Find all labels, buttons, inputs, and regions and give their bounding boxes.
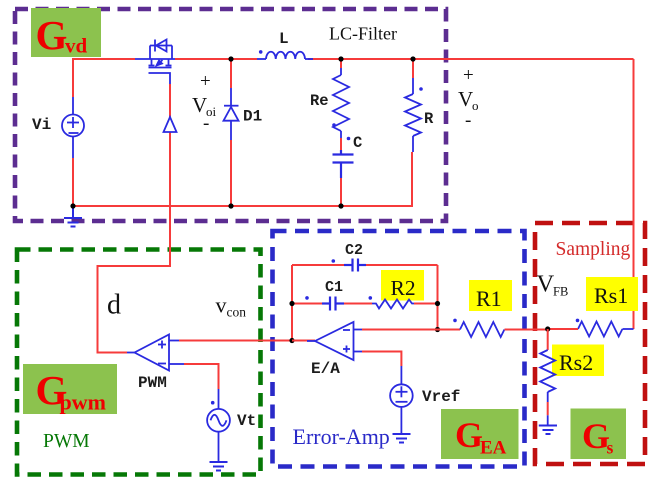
junction node Re top bbox=[338, 56, 343, 61]
svg-text:-: - bbox=[203, 113, 209, 134]
op-amp E/A bbox=[307, 322, 362, 360]
source Vref bbox=[390, 366, 413, 433]
junction node Vi bottom bbox=[70, 203, 75, 208]
op-amp PWM comparator bbox=[127, 335, 184, 371]
svg-text:o: o bbox=[472, 98, 479, 113]
svg-text:C: C bbox=[353, 134, 362, 152]
svg-text:PWM: PWM bbox=[138, 374, 167, 392]
label GEA green box bbox=[441, 409, 519, 459]
label Rs2 yellow bbox=[552, 345, 604, 377]
wire feedback right vertical bbox=[437, 265, 439, 330]
svg-text:EA: EA bbox=[480, 438, 507, 459]
source Vi bbox=[62, 97, 84, 158]
resistor R bbox=[405, 78, 421, 152]
junction node R2 right bbox=[435, 301, 440, 306]
svg-text:Re: Re bbox=[310, 92, 329, 110]
resistor Rs2 bbox=[547, 329, 549, 350]
wire Vo feedback right vertical bbox=[633, 59, 635, 329]
svg-text:d: d bbox=[107, 290, 121, 321]
svg-text:FB: FB bbox=[553, 285, 568, 299]
svg-text:G: G bbox=[455, 415, 483, 455]
wire gate drive (d) bbox=[98, 84, 171, 353]
label Gpwm green box bbox=[23, 364, 117, 415]
label +Voi- bbox=[192, 71, 217, 134]
svg-text:v: v bbox=[216, 293, 227, 318]
wire switch to D1 node and to L bbox=[175, 58, 257, 60]
ground (Vt) bbox=[210, 462, 228, 471]
junction node C1 left bbox=[289, 301, 294, 306]
label Gvd green box bbox=[31, 8, 101, 58]
junction node D1 bottom bbox=[228, 203, 233, 208]
svg-text:V: V bbox=[537, 271, 555, 298]
svg-text:+: + bbox=[200, 71, 211, 92]
svg-text:D1: D1 bbox=[243, 108, 262, 126]
wire Vi lower lead bbox=[72, 158, 74, 206]
wire PWM minus to Vt bbox=[184, 364, 219, 389]
svg-text:Rs1: Rs1 bbox=[594, 283, 628, 308]
svg-text:con: con bbox=[227, 305, 247, 320]
svg-text:V: V bbox=[458, 87, 473, 111]
junction node E/A minus input bbox=[435, 327, 440, 332]
svg-text:Error-Amp: Error-Amp bbox=[293, 424, 390, 449]
junction node R top bbox=[410, 56, 415, 61]
svg-text:R2: R2 bbox=[391, 276, 416, 300]
junction node C bottom bbox=[338, 203, 343, 208]
resistor R1 bbox=[438, 329, 461, 331]
svg-text:Vi: Vi bbox=[32, 116, 51, 134]
wire top rail bbox=[73, 59, 135, 97]
capacitor C2 bbox=[344, 259, 366, 272]
wire E/A output bbox=[292, 340, 307, 342]
box Gvd (purple dashed) bbox=[15, 9, 446, 221]
wire C2 branch bbox=[292, 264, 344, 266]
wire vcon (E/A output to PWM +) bbox=[179, 340, 315, 342]
svg-text:G: G bbox=[36, 12, 68, 58]
resistor Re bbox=[333, 68, 349, 138]
source Vt (triangle/sine gen) bbox=[207, 389, 230, 461]
ground (Vref) bbox=[393, 434, 411, 443]
resistor Rs1 bbox=[578, 322, 622, 337]
svg-text:Sampling: Sampling bbox=[556, 239, 631, 260]
label Gs green box bbox=[571, 409, 627, 460]
svg-text:+: + bbox=[463, 65, 474, 86]
ground (Rs2) bbox=[539, 426, 557, 435]
svg-text:R: R bbox=[424, 110, 434, 128]
svg-text:E/A: E/A bbox=[311, 360, 340, 378]
pin dot L bbox=[259, 50, 263, 54]
box Error-Amp (blue dashed) bbox=[273, 231, 525, 467]
svg-text:Rs2: Rs2 bbox=[559, 350, 593, 375]
diode D1 bbox=[224, 88, 239, 140]
svg-text:C2: C2 bbox=[345, 242, 363, 259]
wire E/A plus to Vref bbox=[362, 352, 401, 367]
svg-text:L: L bbox=[279, 30, 289, 48]
svg-text:LC-Filter: LC-Filter bbox=[329, 24, 397, 44]
resistor R2 bbox=[372, 300, 414, 309]
capacitor C1 bbox=[322, 297, 344, 311]
label R1 yellow bbox=[469, 280, 512, 311]
svg-text:Vref: Vref bbox=[422, 388, 460, 406]
wire E/A minus input bbox=[362, 329, 438, 331]
box Sampling Gs (red dashed) bbox=[535, 223, 645, 464]
junction node D1 top bbox=[228, 56, 233, 61]
svg-text:vd: vd bbox=[65, 34, 88, 58]
box Gpwm (green dashed) bbox=[17, 250, 261, 475]
wire L to output node rail bbox=[308, 58, 634, 60]
svg-text:C1: C1 bbox=[325, 279, 343, 296]
inductor L bbox=[257, 52, 313, 59]
label +Vo- bbox=[458, 65, 479, 131]
node VFB bbox=[545, 326, 550, 331]
svg-text:pwm: pwm bbox=[60, 390, 106, 415]
ground (Vi) bbox=[64, 206, 82, 227]
svg-text:Vt: Vt bbox=[237, 412, 256, 430]
label R2 yellow bbox=[381, 270, 424, 301]
label Rs1 yellow bbox=[586, 277, 638, 311]
wire feedback left vertical bbox=[291, 265, 293, 341]
svg-text:PWM: PWM bbox=[43, 431, 90, 452]
junction node E/A output bbox=[289, 338, 294, 343]
svg-text:R1: R1 bbox=[476, 286, 502, 311]
svg-text:-: - bbox=[465, 110, 471, 131]
svg-text:s: s bbox=[607, 438, 614, 458]
transistor M1 (switch with body diode) bbox=[135, 40, 175, 85]
wire bottom rail bbox=[73, 152, 412, 206]
capacitor C bbox=[333, 150, 354, 178]
arrow on gate wire bbox=[164, 117, 177, 132]
wire C1-R2 branch bbox=[292, 303, 322, 305]
